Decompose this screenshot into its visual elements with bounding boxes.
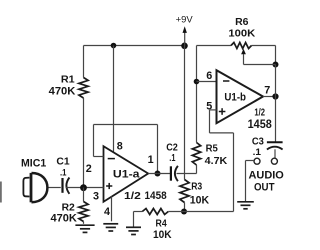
svg-text:R5: R5 bbox=[206, 144, 218, 155]
svg-text:1458: 1458 bbox=[248, 118, 273, 131]
svg-text:.1: .1 bbox=[253, 147, 262, 158]
svg-text:U1-a: U1-a bbox=[113, 169, 140, 181]
svg-text:2: 2 bbox=[86, 163, 92, 175]
svg-text:R4: R4 bbox=[156, 218, 167, 229]
svg-text:7: 7 bbox=[264, 84, 270, 96]
svg-text:AUDIO: AUDIO bbox=[249, 170, 284, 182]
svg-text:1/2: 1/2 bbox=[254, 108, 265, 119]
svg-text:6: 6 bbox=[206, 70, 212, 82]
svg-text:8: 8 bbox=[117, 141, 123, 153]
svg-text:4.7K: 4.7K bbox=[205, 156, 228, 167]
svg-text:10K: 10K bbox=[153, 229, 172, 241]
svg-text:R6: R6 bbox=[235, 17, 249, 28]
svg-text:10K: 10K bbox=[190, 194, 210, 206]
svg-text:.1: .1 bbox=[169, 153, 176, 164]
svg-text:C3: C3 bbox=[252, 136, 264, 147]
svg-text:+9V: +9V bbox=[176, 14, 193, 24]
svg-text:1: 1 bbox=[148, 154, 154, 166]
svg-text:U1-b: U1-b bbox=[224, 91, 246, 103]
svg-text:470K: 470K bbox=[51, 213, 78, 225]
svg-text:5: 5 bbox=[206, 101, 212, 113]
svg-text:3: 3 bbox=[93, 190, 99, 202]
svg-text:R3: R3 bbox=[191, 182, 202, 193]
svg-text:.1: .1 bbox=[60, 167, 67, 178]
svg-text:C1: C1 bbox=[56, 157, 69, 168]
svg-text:1/2: 1/2 bbox=[124, 191, 141, 202]
svg-text:1458: 1458 bbox=[145, 190, 167, 202]
svg-text:MIC1: MIC1 bbox=[21, 157, 46, 169]
svg-text:100K: 100K bbox=[228, 28, 255, 39]
svg-text:OUT: OUT bbox=[254, 181, 275, 193]
svg-text:470K: 470K bbox=[49, 86, 76, 98]
svg-text:4: 4 bbox=[104, 206, 110, 218]
svg-text:R1: R1 bbox=[61, 75, 75, 86]
